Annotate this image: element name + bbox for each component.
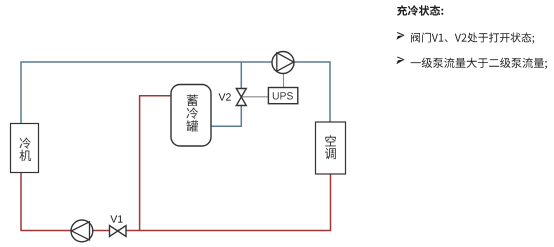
wire: tank outlet branch to supply line via valve V2 (blue) xyxy=(211,62,241,126)
label V1 xyxy=(110,215,122,222)
label 蓄冷罐 (vertical) xyxy=(186,95,198,132)
note line 2: 一级泵流量大于二级泵流量; xyxy=(411,58,547,70)
wire: tank inlet branch down to return line (red) xyxy=(140,96,171,231)
valve V1 (horizontal bowtie) xyxy=(110,226,127,237)
pump P2 secondary (top, triangle right) xyxy=(272,52,294,74)
wire: gray control line UPS top to pump P2 xyxy=(283,73,285,88)
AC box 空调 xyxy=(316,122,346,174)
chiller box 冷机 xyxy=(11,124,39,173)
UPS box xyxy=(268,88,297,104)
wire: chiller bottom return line down / across / up to AC bottom (red) xyxy=(21,173,331,231)
storage tank 蓄冷罐 (rounded) xyxy=(171,85,211,147)
label V2 xyxy=(219,93,231,100)
wire: gray control line valve V2 to UPS xyxy=(241,96,268,98)
label UPS xyxy=(273,92,293,99)
pump P1 primary (bottom, triangle left) xyxy=(71,220,93,242)
note heading 充冷状态: (bold) xyxy=(397,5,443,16)
bullet arrow 2 xyxy=(397,57,404,60)
wire: chilled-water supply, chiller top up / across / down to AC (blue) xyxy=(21,62,330,124)
label 空调 (vertical) xyxy=(325,135,336,159)
note line 1: 阀门V1、V2处于打开状态; xyxy=(411,33,534,44)
bullet arrow 1 xyxy=(397,33,404,36)
valve V2 (vertical bowtie) xyxy=(236,89,246,106)
label 冷机 (vertical) xyxy=(19,138,31,162)
